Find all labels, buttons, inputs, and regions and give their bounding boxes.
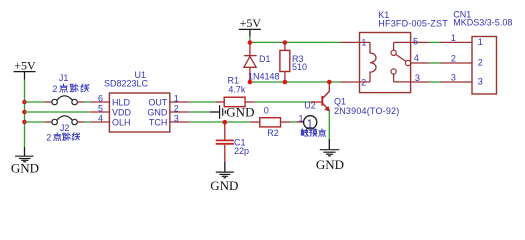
svg-text:1: 1 bbox=[451, 33, 456, 43]
svg-text:OLH: OLH bbox=[112, 117, 131, 127]
svg-text:3: 3 bbox=[451, 73, 456, 83]
svg-text:D1: D1 bbox=[259, 54, 271, 64]
pin 1 K1 bbox=[340, 38, 370, 48]
resistor R2 0 bbox=[250, 106, 291, 139]
svg-text:J2: J2 bbox=[60, 123, 70, 133]
pin 2 K1 bbox=[340, 78, 370, 88]
power +5V left bbox=[14, 58, 37, 79]
svg-text:5: 5 bbox=[413, 37, 418, 47]
wire R1 to Q1 base bbox=[255, 101, 311, 103]
relay K1 HF3FD-005-ZST bbox=[360, 10, 449, 92]
wire J2 to U1 pin4 bbox=[84, 121, 90, 123]
ground GND under C1 bbox=[210, 162, 238, 193]
pin 3 K1 bbox=[411, 73, 430, 83]
node +5V D1 junction bbox=[248, 40, 253, 45]
svg-text:3: 3 bbox=[174, 113, 179, 123]
svg-text:1: 1 bbox=[361, 38, 366, 48]
wire U1 pin3 to C1 node bbox=[189, 121, 250, 123]
pin 2 U1 bbox=[170, 103, 190, 113]
svg-text:TCH: TCH bbox=[149, 117, 168, 127]
svg-text:2: 2 bbox=[46, 133, 51, 143]
pin 5 U1 bbox=[90, 103, 110, 113]
wire rail to J2 bbox=[25, 121, 45, 123]
svg-text:2N3904(TO-92): 2N3904(TO-92) bbox=[334, 106, 399, 116]
wire K1 pin4 to CN1 pin2 bbox=[429, 62, 440, 64]
relay coil bbox=[370, 42, 376, 82]
wire +5V rail to relay pin1 bbox=[250, 41, 340, 43]
node D1 collector junction bbox=[248, 80, 253, 85]
touch pad U2 bbox=[297, 101, 317, 131]
svg-text:1: 1 bbox=[174, 93, 179, 103]
wire U1 pin2 to ground bbox=[189, 111, 210, 113]
svg-text:GND: GND bbox=[316, 157, 344, 172]
capacitor C1 22p bbox=[216, 122, 249, 162]
jumper J1 bbox=[44, 73, 84, 105]
wire Q1 emitter down bbox=[328, 111, 330, 139]
svg-text:2: 2 bbox=[451, 54, 456, 64]
svg-text:22p: 22p bbox=[234, 146, 249, 156]
svg-text:4: 4 bbox=[414, 53, 419, 63]
transistor Q1 2N3904 bbox=[311, 82, 399, 116]
pin 3 CN1 bbox=[440, 73, 483, 87]
relay contact common bbox=[391, 42, 411, 65]
svg-text:0: 0 bbox=[264, 106, 269, 116]
pin 2 CN1 bbox=[440, 54, 483, 68]
ground GND at U1 pin2 (rotated) bbox=[210, 104, 254, 119]
svg-text:4: 4 bbox=[98, 113, 103, 123]
svg-text:3: 3 bbox=[478, 77, 483, 87]
svg-text:1: 1 bbox=[299, 113, 304, 123]
relay contact NO bbox=[391, 69, 411, 82]
ground GND left bbox=[11, 147, 39, 175]
svg-text:510: 510 bbox=[292, 62, 307, 72]
jumper J2 bbox=[44, 116, 84, 133]
svg-text:+5V: +5V bbox=[14, 58, 36, 72]
svg-text:R2: R2 bbox=[267, 128, 279, 138]
svg-text:4.7k: 4.7k bbox=[228, 85, 246, 95]
svg-text:2: 2 bbox=[478, 58, 483, 68]
pin 4 U1 bbox=[90, 113, 110, 123]
resistor R3 510 bbox=[280, 42, 307, 82]
svg-text:HF3FD-005-ZST: HF3FD-005-ZST bbox=[378, 18, 448, 28]
svg-text:GND: GND bbox=[11, 160, 39, 175]
node rail junction row1 bbox=[22, 100, 27, 105]
wire K1 pin3 to CN1 pin3 bbox=[429, 81, 440, 83]
node +5V R3 junction bbox=[283, 40, 288, 45]
node Q1 collector junction bbox=[327, 80, 332, 85]
op-amp U1 SD8223LC body bbox=[104, 70, 170, 132]
pin 3 U1 bbox=[170, 113, 190, 123]
pin 5 K1 bbox=[411, 37, 430, 47]
wire K1 pin5 to CN1 pin1 bbox=[429, 41, 440, 43]
svg-text:+5V: +5V bbox=[240, 16, 262, 30]
svg-text:2: 2 bbox=[52, 84, 57, 94]
ground GND under Q1 bbox=[316, 139, 344, 172]
label J1 2点跳线 bbox=[52, 84, 88, 94]
pin 4 K1 bbox=[411, 53, 430, 63]
wire J1 to U1 pin6 bbox=[84, 101, 90, 103]
pin 1 U1 bbox=[170, 93, 190, 103]
wire R2 to U2 bbox=[291, 121, 297, 123]
node TCH junction bbox=[223, 120, 228, 125]
svg-text:MKDS3/3-5.08: MKDS3/3-5.08 bbox=[453, 18, 512, 28]
diode D1 1N4148 bbox=[244, 42, 280, 82]
pin 6 U1 bbox=[90, 93, 110, 103]
svg-text:GND: GND bbox=[210, 178, 238, 193]
power +5V top bbox=[239, 16, 262, 36]
svg-text:HLD: HLD bbox=[112, 97, 131, 107]
resistor R1 4.7k bbox=[216, 75, 255, 106]
node R3 collector junction bbox=[283, 80, 288, 85]
label J2 2点跳线 bbox=[46, 133, 79, 143]
svg-text:J1: J1 bbox=[59, 73, 69, 83]
svg-text:VDD: VDD bbox=[112, 107, 132, 117]
svg-text:1N4148: 1N4148 bbox=[248, 72, 280, 82]
svg-text:1: 1 bbox=[307, 119, 313, 131]
wire left power rail bbox=[24, 80, 26, 148]
svg-text:6: 6 bbox=[98, 93, 103, 103]
svg-text:GND: GND bbox=[147, 107, 168, 117]
node rail junction row2 bbox=[22, 110, 27, 115]
svg-text:5: 5 bbox=[98, 103, 103, 113]
label U2 触摸点 bbox=[301, 129, 325, 137]
wire +5V stem bbox=[249, 37, 251, 43]
svg-text:SD8223LC: SD8223LC bbox=[104, 78, 149, 88]
connector CN1 MKDS3/3-5.08 bbox=[453, 9, 512, 94]
svg-text:1: 1 bbox=[478, 37, 483, 47]
wire rail to U1 pin5 bbox=[25, 111, 90, 113]
svg-text:2: 2 bbox=[174, 103, 179, 113]
wire U1 pin1 to R1 bbox=[189, 101, 215, 103]
pin 1 CN1 bbox=[440, 33, 483, 47]
svg-text:3: 3 bbox=[415, 73, 420, 83]
svg-text:GND: GND bbox=[226, 104, 254, 119]
svg-text:OUT: OUT bbox=[148, 97, 168, 107]
wire collector rail to relay pin2 bbox=[250, 81, 340, 83]
node rail junction row3 bbox=[22, 120, 27, 125]
svg-text:2: 2 bbox=[361, 78, 366, 88]
wire rail to J1 bbox=[25, 101, 45, 103]
